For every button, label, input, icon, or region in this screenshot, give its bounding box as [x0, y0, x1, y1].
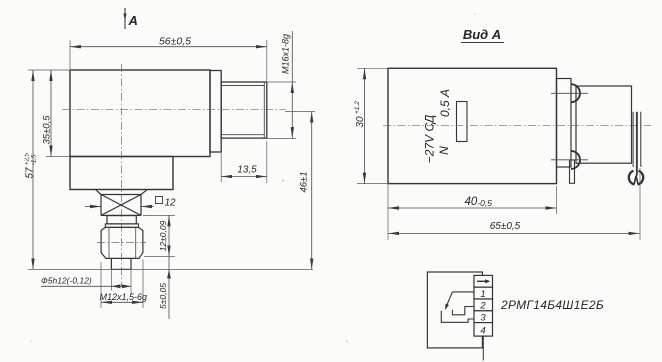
svg-text:−27V СД: −27V СД	[423, 114, 437, 163]
connector barrel	[576, 86, 632, 163]
arrow glyph in top cell	[477, 280, 487, 282]
svg-text:5±0,05: 5±0,05	[158, 283, 168, 309]
svg-text:57: 57	[25, 167, 36, 179]
dimension 57	[28, 69, 70, 71]
dimension 13,5	[220, 153, 222, 182]
switch contact from pin 3	[441, 311, 474, 323]
dimension M12x1,5-6g (nut thread)	[100, 262, 102, 308]
scan specks	[282, 180, 284, 182]
svg-text:+1,2: +1,2	[354, 101, 361, 114]
pin column cells	[474, 275, 493, 336]
switch contact from pin 2	[452, 307, 474, 315]
dimension 46±1	[285, 111, 315, 113]
svg-text:4: 4	[480, 325, 485, 336]
svg-text:30: 30	[355, 116, 366, 128]
switch wire from pin 1	[452, 291, 474, 293]
svg-text:0,5 А: 0,5 А	[438, 89, 452, 117]
vertical centerline of stem	[121, 64, 123, 287]
bail loop clip	[629, 171, 635, 185]
label square 12	[156, 197, 163, 204]
svg-text:A: A	[128, 13, 138, 28]
svg-text:M16x1-8g: M16x1-8g	[281, 34, 291, 74]
square section with X-cross	[96, 190, 147, 216]
svg-text:3: 3	[480, 312, 486, 323]
view direction arrow A	[124, 8, 126, 29]
dimension 35±0,5	[46, 156, 69, 158]
stem bottom edge	[111, 268, 131, 270]
bottom lug	[571, 151, 580, 169]
svg-text:12±0,09: 12±0,09	[158, 220, 168, 251]
dimension 30+1,2	[357, 67, 387, 69]
bottom tab plate	[570, 160, 575, 183]
svg-text:M12x1,5-6g: M12x1,5-6g	[100, 292, 148, 302]
nut centerline	[97, 242, 146, 244]
body lower section	[70, 157, 173, 190]
hex flat edges	[108, 227, 110, 258]
stem	[110, 259, 112, 270]
bottom long extension line	[28, 268, 313, 270]
top lug	[571, 84, 580, 102]
bail wires	[633, 112, 641, 176]
svg-text:Вид А: Вид А	[463, 27, 501, 42]
pin 4 wire below	[482, 336, 484, 360]
svg-text:56±0,5: 56±0,5	[159, 36, 191, 48]
body main rectangle	[70, 70, 210, 157]
stem extension lines	[110, 269, 112, 290]
connector flange strip	[557, 79, 572, 168]
label window	[457, 102, 468, 142]
dimension M16x1-8g	[268, 81, 297, 83]
dimension 56±0,5	[69, 40, 71, 69]
dimension 65±0,5	[639, 168, 641, 240]
svg-text:2: 2	[479, 301, 486, 312]
hex nut	[101, 227, 143, 258]
square size arrows	[85, 206, 154, 208]
schematic outer box	[427, 272, 482, 348]
dimension 40-0,5	[387, 184, 389, 240]
threaded stub outline	[221, 82, 267, 138]
svg-text:13,5: 13,5	[237, 165, 257, 176]
dimension Ф5h12	[41, 285, 131, 287]
svg-text:2РМГ14Б4Ш1Е2Б: 2РМГ14Б4Ш1Е2Б	[500, 298, 604, 312]
flange	[210, 71, 221, 153]
svg-text:Ф5h12(-0,12): Ф5h12(-0,12)	[41, 276, 92, 286]
svg-text:35±0,5: 35±0,5	[42, 115, 53, 145]
thread minor diameter lines	[221, 85, 264, 87]
dimension 12±0,09 and 5±0,05	[143, 214, 175, 216]
horizontal centerline of body axis	[62, 109, 286, 111]
collar ring	[105, 224, 138, 228]
svg-text:65±0,5: 65±0,5	[490, 221, 521, 232]
svg-text:12: 12	[165, 198, 177, 209]
svg-text:-1,5: -1,5	[32, 154, 38, 165]
ring below square	[107, 216, 136, 224]
switch moving contact with arrow	[447, 292, 453, 306]
svg-text:N: N	[437, 146, 451, 155]
right view body box	[388, 68, 557, 183]
thread end inner line	[263, 82, 265, 138]
svg-text:40-0,5: 40-0,5	[465, 196, 493, 208]
svg-text:46±1: 46±1	[299, 171, 310, 192]
svg-text:+2,5: +2,5	[25, 152, 31, 165]
svg-text:1: 1	[480, 289, 485, 300]
right view centerline	[383, 124, 651, 126]
